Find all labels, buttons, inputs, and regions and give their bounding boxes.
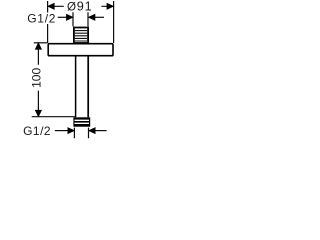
svg-text:G1/2: G1/2 [23,124,51,138]
svg-text:Ø: Ø [67,1,76,14]
svg-text:G1/2: G1/2 [27,12,56,26]
svg-text:91: 91 [77,0,93,14]
svg-text:100: 100 [29,68,43,88]
